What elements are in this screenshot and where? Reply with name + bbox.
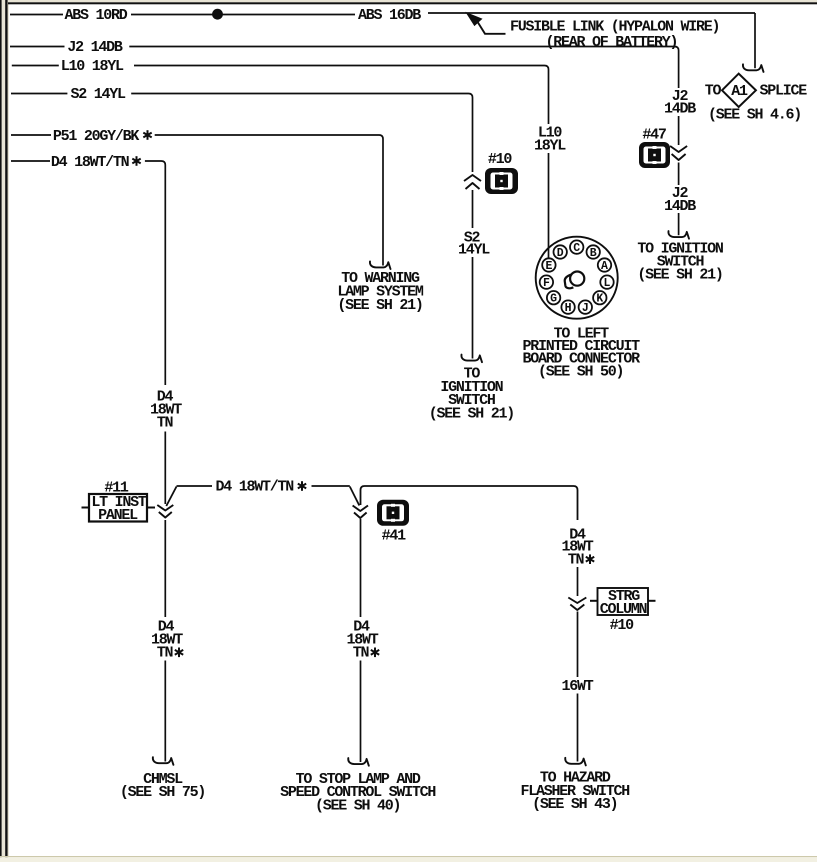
svg-text:TO: TO (705, 83, 722, 100)
wire ABS 10RD left segment (10, 14, 63, 16)
svg-text:14DB: 14DB (664, 101, 696, 118)
connector box LT INST PANEL (89, 494, 147, 522)
wire L10 horizontal (134, 66, 549, 125)
svg-text:14DB: 14DB (664, 198, 696, 215)
svg-text:(SEE SH 4.6): (SEE SH 4.6) (708, 106, 801, 123)
wire D4 vertical to junction (164, 432, 166, 505)
svg-text:PANEL: PANEL (98, 507, 138, 524)
left border outer line (0, 0, 2, 858)
wire D4 horizontal to corner (145, 161, 165, 385)
svg-text:J2 14DB: J2 14DB (67, 39, 123, 56)
bottom cream strip (0, 857, 817, 862)
svg-text:(SEE SH 75): (SEE SH 75) (120, 784, 205, 801)
wire S2 14YL left segment (11, 93, 67, 95)
svg-text:(SEE SH 50): (SEE SH 50) (538, 363, 623, 380)
wire S2 horizontal (131, 94, 472, 173)
svg-text:ABS 10RD: ABS 10RD (65, 7, 128, 24)
wire P51 left segment (11, 134, 51, 136)
inline connector chevrons STRG COLUMN (568, 598, 586, 604)
wire ABS down to splice A1 (754, 13, 756, 68)
connector pin E (542, 258, 555, 273)
svg-text:TN: TN (353, 645, 370, 662)
svg-text:D4 18WT/TN: D4 18WT/TN (216, 479, 295, 496)
svg-text:(SEE SH 40): (SEE SH 40) (315, 797, 400, 814)
svg-text:(REAR OF BATTERY): (REAR OF BATTERY) (546, 34, 678, 51)
left printed circuit board connector circle (536, 237, 618, 319)
wire 16WT vertical (577, 612, 579, 678)
middle junction diagonal (350, 487, 360, 506)
connector pin F (540, 275, 553, 290)
wire branch D4 horizontal right piece (361, 486, 578, 520)
connector pin C (570, 240, 583, 255)
svg-text:COLUMN: COLUMN (600, 601, 648, 618)
svg-text:(SEE SH 21): (SEE SH 21) (637, 267, 722, 284)
inline connector chevrons J2 (670, 146, 687, 152)
svg-text:(SEE SH 21): (SEE SH 21) (337, 297, 422, 314)
svg-text:A1: A1 (731, 83, 748, 100)
hook P51 wire end (370, 261, 391, 269)
wire branch D4 horizontal to middle junction (312, 485, 350, 487)
connector pin B (587, 245, 600, 260)
connector pin L (600, 275, 613, 290)
connector #41 symbol (377, 500, 409, 526)
wire J2 horizontal to right (129, 47, 678, 89)
svg-text:16WT: 16WT (561, 678, 593, 695)
connector pin K (593, 291, 606, 306)
wire ABS 16DB right segment (428, 12, 755, 14)
top border line (8, 2, 817, 4)
left border inner line (5, 0, 7, 858)
wire D4 right branch vertical (577, 567, 579, 596)
svg-text:TN: TN (568, 552, 585, 569)
hook CHMSL wire end (153, 757, 174, 765)
svg-text:K: K (596, 293, 603, 306)
wire P51 horizontal (155, 135, 383, 266)
svg-text:#47: #47 (642, 126, 666, 143)
wire S2 to ignition switch (472, 257, 474, 359)
splice dot (212, 9, 223, 20)
connector pin J (579, 300, 592, 315)
branch wire diagonal into junction (166, 487, 176, 507)
svg-text:#10: #10 (488, 151, 513, 168)
svg-text:J: J (582, 302, 589, 315)
svg-text:L: L (604, 277, 611, 290)
hook J2 wire end (668, 231, 689, 239)
svg-text:18YL: 18YL (534, 137, 566, 154)
inline connector chevrons S2 (464, 175, 481, 181)
svg-text:14YL: 14YL (458, 242, 490, 259)
connector #10 symbol (485, 168, 518, 194)
hook hazard wire end (565, 758, 586, 766)
svg-text:#41: #41 (382, 528, 407, 545)
svg-text:E: E (545, 260, 552, 273)
splice A1 diamond (722, 74, 756, 107)
wire J2 below chevrons (678, 163, 680, 186)
svg-text:D4 18WT/TN: D4 18WT/TN (51, 154, 130, 171)
svg-text:S2 14YL: S2 14YL (71, 86, 127, 103)
fusible link callout arrow (467, 13, 482, 26)
svg-text:(SEE SH 21): (SEE SH 21) (429, 405, 514, 422)
page edge cream strip left (0, 0, 9, 862)
wire D4 to stop lamp switch (360, 661, 362, 763)
connector #47 symbol (639, 142, 670, 168)
wire D4 to CHMSL (164, 661, 166, 762)
wire branch D4 horizontal left piece (177, 485, 213, 487)
svg-text:SPLICE: SPLICE (760, 83, 808, 100)
wire L10 down to circular connector (548, 153, 550, 258)
hook stop lamp wire end (348, 758, 369, 766)
svg-text:(SEE SH 43): (SEE SH 43) (532, 796, 617, 813)
inline connector chevrons left junction (157, 505, 173, 511)
svg-text:P51 20GY/BK: P51 20GY/BK (53, 128, 140, 145)
connector pin G (547, 291, 560, 306)
svg-text:#10: #10 (610, 617, 635, 634)
connector pin H (561, 300, 574, 315)
wire D4 below junction (left) (164, 520, 166, 617)
svg-text:TN: TN (157, 645, 174, 662)
connector center keyway (570, 272, 584, 286)
wire J2 to ignition switch (678, 213, 680, 235)
svg-text:G: G (550, 293, 557, 306)
wire S2 below chevrons (472, 190, 474, 228)
connector #11 LT INST PANEL dashes (82, 507, 89, 509)
inline connector chevrons middle junction (353, 506, 368, 512)
bottom page edge line (0, 856, 817, 857)
svg-text:L10 18YL: L10 18YL (61, 58, 124, 75)
svg-text:H: H (565, 302, 572, 315)
svg-text:D: D (557, 247, 564, 260)
hook S2 wire end (461, 355, 482, 363)
svg-text:A: A (601, 260, 608, 273)
connector pin D (554, 245, 567, 260)
top cream strip (8, 0, 817, 2)
svg-text:B: B (590, 247, 597, 260)
wire to hazard flasher switch (577, 694, 579, 762)
hook splice A1 wire end (743, 64, 764, 72)
connector box STRG COLUMN (598, 588, 649, 615)
wire J2 14DB left segment (10, 46, 65, 48)
wire ABS segment with splice dot (131, 14, 355, 16)
svg-text:F: F (543, 277, 550, 290)
wire L10 18YL left segment (12, 65, 59, 67)
svg-text:ABS 16DB: ABS 16DB (358, 7, 421, 24)
svg-text:TN: TN (157, 414, 174, 431)
wire D4 below middle junction (360, 519, 362, 617)
connector pin A (598, 258, 611, 273)
wire D4 left segment (11, 160, 50, 162)
connector STRG COLUMN dashes (590, 600, 598, 602)
wire J2 vertical above connector (678, 116, 680, 145)
svg-text:C: C (573, 242, 580, 255)
